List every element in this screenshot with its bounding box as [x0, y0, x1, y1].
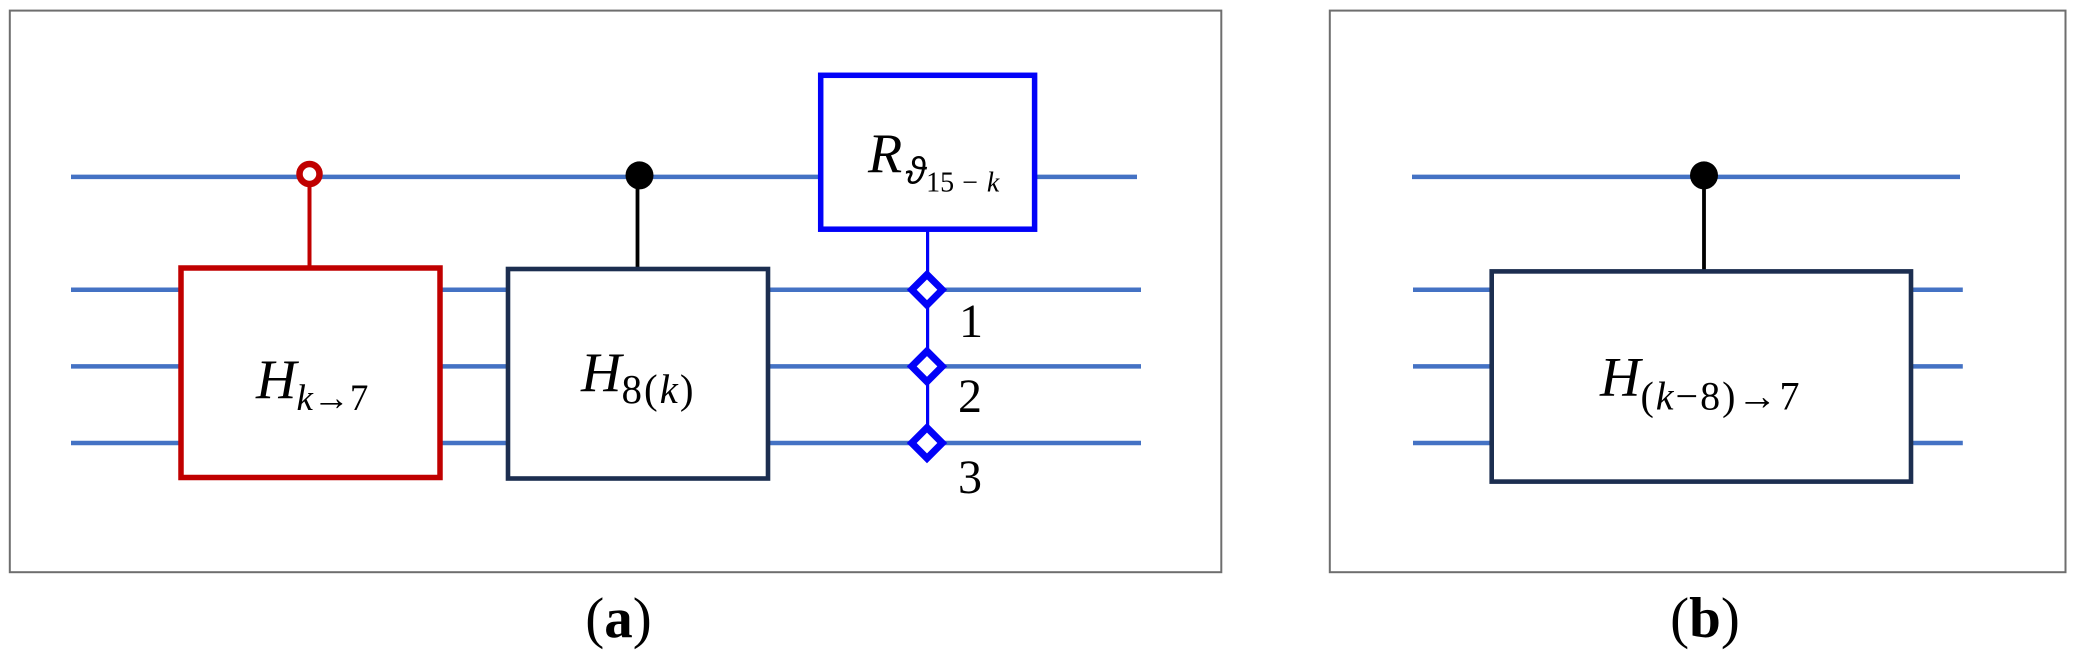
wire q0 (b) [1412, 175, 1960, 180]
control stem black (a) [636, 180, 640, 267]
gate box H_(k-8)->7 (navy) [1492, 271, 1911, 481]
control stem red [308, 184, 312, 266]
gate box H_k->7 (red) [181, 268, 440, 478]
diamond target 2 [912, 351, 943, 382]
diamond target 3 [912, 428, 943, 459]
wire q3 (a) [71, 441, 1141, 446]
wire q3 left stub (b) [1413, 441, 1491, 446]
vertical link blue [926, 226, 929, 443]
panel (a) frame [10, 11, 1222, 573]
panel (b) frame [1330, 11, 2066, 573]
wire q0 (a) [71, 175, 1137, 180]
filled control dot (a) [626, 161, 654, 189]
gate box R_theta (blue) [821, 75, 1035, 229]
wire q2 right stub (b) [1912, 364, 1963, 369]
wire q2 left stub (b) [1413, 364, 1491, 369]
svg-text:(a): (a) [585, 587, 651, 650]
open-circle control (red) [300, 164, 320, 184]
svg-text:3: 3 [958, 451, 982, 504]
diamond target 1 [912, 275, 943, 306]
control stem black (b) [1702, 180, 1706, 270]
svg-text:2: 2 [958, 370, 982, 423]
gate box H_8(k) (navy) [508, 269, 768, 479]
svg-text:1: 1 [959, 295, 983, 348]
wire q3 right stub (b) [1912, 441, 1963, 446]
wire q2 (a) [71, 364, 1141, 369]
svg-text:(b): (b) [1670, 587, 1740, 650]
wire q1 right stub (b) [1912, 288, 1963, 293]
filled control dot (b) [1690, 161, 1718, 189]
wire q1 (a) [71, 288, 1141, 293]
wire q1 left stub (b) [1413, 288, 1491, 293]
